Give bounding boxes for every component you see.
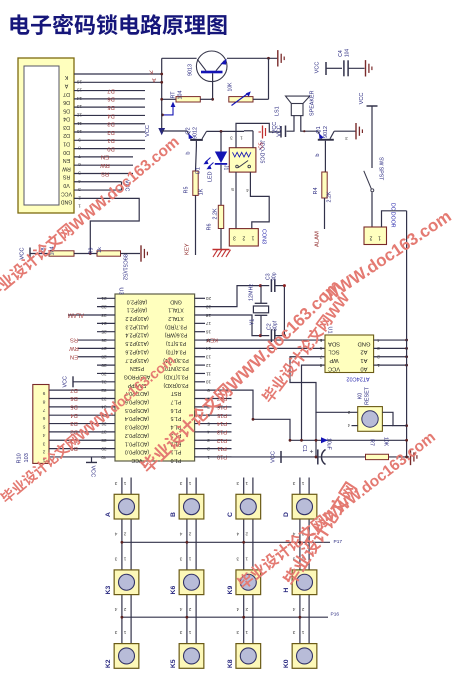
wire Q2 collector — [207, 130, 245, 132]
svg-text:R6: R6 — [207, 224, 213, 231]
svg-text:P1.6: P1.6 — [171, 407, 182, 413]
keypad row rail P17 — [122, 541, 330, 543]
capacitor C2 — [260, 335, 269, 337]
svg-text:(AD0)P0.0: (AD0)P0.0 — [125, 449, 149, 455]
svg-text:(A15)P2.7: (A15)P2.7 — [125, 357, 148, 363]
RT wiper arrow — [162, 107, 173, 115]
wire LCD pin16 K — [74, 73, 162, 75]
wire LCD pin15 A — [74, 81, 162, 83]
speaker LS1 — [286, 96, 310, 103]
keypad column wires — [121, 478, 123, 495]
junction — [267, 57, 270, 60]
svg-text:3: 3 — [292, 629, 295, 635]
ground (Q1) — [355, 123, 357, 139]
connector CON3 — [229, 229, 258, 246]
svg-text:5: 5 — [231, 186, 234, 192]
svg-text:A: A — [152, 77, 156, 83]
svg-text:3: 3 — [114, 629, 117, 635]
wire pot to ground rail — [253, 98, 269, 100]
svg-text:1: 1 — [245, 629, 248, 635]
svg-text:4: 4 — [236, 531, 239, 537]
svg-text:R4: R4 — [313, 188, 319, 195]
U3 left pin stubs — [97, 297, 115, 299]
svg-text:1: 1 — [251, 235, 254, 241]
svg-text:GND: GND — [170, 298, 182, 304]
svg-text:(A11)P2.3: (A11)P2.3 — [125, 323, 148, 329]
wire LCD data D2 — [74, 131, 145, 133]
svg-text:K5: K5 — [170, 659, 177, 668]
svg-text:(A12)P2.4: (A12)P2.4 — [125, 332, 148, 338]
wire RS net — [78, 339, 115, 341]
svg-text:15: 15 — [77, 87, 83, 93]
wire switch to DOOR connector — [371, 192, 373, 227]
pushbutton A — [114, 494, 139, 519]
svg-text:1: 1 — [245, 555, 248, 561]
junction — [161, 114, 164, 117]
svg-text:16: 16 — [77, 78, 83, 84]
svg-text:D7: D7 — [70, 387, 77, 393]
wire EN net — [78, 356, 115, 358]
svg-text:3: 3 — [42, 440, 45, 446]
svg-text:1: 1 — [301, 629, 304, 635]
svg-text:D6: D6 — [107, 96, 114, 102]
svg-text:(A14)P2.6: (A14)P2.6 — [125, 348, 148, 354]
svg-text:20: 20 — [206, 295, 212, 301]
svg-text:D3: D3 — [107, 121, 114, 127]
wire R4 to ALAM — [324, 198, 326, 229]
svg-text:K0: K0 — [283, 659, 290, 668]
junction K0 left leg — [315, 412, 317, 457]
svg-text:103: 103 — [24, 453, 30, 462]
svg-text:VCC: VCC — [328, 365, 340, 371]
ground (reset) — [410, 449, 412, 465]
wire U1 VCC pin — [302, 365, 326, 440]
svg-text:VCC: VCC — [20, 247, 26, 259]
svg-text:P3.0(RXD): P3.0(RXD) — [163, 382, 188, 388]
svg-text:RW: RW — [100, 162, 110, 168]
svg-text:3: 3 — [233, 235, 236, 241]
svg-text:D2: D2 — [63, 132, 70, 138]
transistor Q2 9012 — [162, 130, 187, 132]
svg-text:2: 2 — [42, 449, 45, 455]
wire LCD GND row — [74, 198, 139, 253]
power VCC (relay) — [280, 126, 282, 138]
svg-text:9: 9 — [78, 136, 81, 142]
svg-text:VCC: VCC — [271, 451, 277, 463]
svg-text:4: 4 — [292, 606, 295, 612]
svg-text:D4: D4 — [63, 116, 70, 122]
EEPROM U1 AT24C02 body — [325, 335, 374, 373]
LCD connector module — [18, 58, 74, 213]
svg-text:AT24C02: AT24C02 — [346, 376, 369, 382]
svg-text:1: 1 — [188, 555, 191, 561]
svg-text:3: 3 — [236, 555, 239, 561]
wire LCD data D6 — [74, 98, 145, 100]
junction crystal bottom — [259, 334, 262, 337]
svg-text:WP: WP — [329, 357, 338, 363]
wire RW net — [78, 347, 115, 349]
wire VCC to R8 — [30, 253, 49, 255]
pushbutton H — [292, 570, 317, 595]
wire LCD data D5 — [74, 106, 145, 108]
svg-text:RS: RS — [70, 337, 78, 343]
svg-text:3: 3 — [236, 480, 239, 486]
wire LCD ctrl RW — [74, 164, 133, 166]
svg-text:U3: U3 — [118, 287, 124, 294]
svg-text:D5: D5 — [107, 104, 114, 110]
svg-text:VCC: VCC — [315, 62, 321, 74]
svg-text:KEY: KEY — [206, 337, 218, 343]
svg-text:1: 1 — [123, 555, 126, 561]
junction — [89, 252, 92, 255]
svg-text:10K: 10K — [228, 82, 234, 92]
svg-text:10: 10 — [77, 128, 83, 134]
svg-text:11: 11 — [206, 370, 211, 376]
watermark 1 — [0, 133, 183, 304]
wire P3.4 to U1 SCL — [195, 347, 325, 349]
svg-text:XTAL2: XTAL2 — [168, 315, 184, 321]
svg-text:(AD2)P0.2: (AD2)P0.2 — [125, 432, 149, 438]
svg-text:K: K — [149, 69, 153, 75]
svg-text:P3.1(TXD): P3.1(TXD) — [163, 373, 188, 379]
svg-text:Q2: Q2 — [186, 127, 192, 134]
svg-text:+: + — [310, 448, 314, 455]
svg-text:13: 13 — [77, 103, 83, 109]
power VCC (C4) — [325, 62, 327, 75]
svg-text:VCC: VCC — [61, 190, 72, 196]
svg-text:A: A — [105, 512, 112, 517]
pushbutton K6 — [179, 570, 204, 595]
wire EA/VPP to VCC — [73, 381, 115, 383]
svg-text:R7: R7 — [369, 439, 375, 446]
svg-text:(A9)P2.1: (A9)P2.1 — [127, 307, 148, 313]
svg-text:SPEAKER: SPEAKER — [310, 90, 316, 116]
K0 right pins — [382, 412, 406, 425]
wire LCD VCC row — [74, 189, 122, 191]
svg-text:SCL: SCL — [328, 349, 340, 355]
capacitor C3 — [260, 285, 269, 287]
svg-text:D6: D6 — [63, 99, 70, 105]
U1 right pins to rail — [374, 339, 407, 341]
svg-text:b: b — [315, 153, 321, 156]
svg-text:R10: R10 — [17, 453, 23, 463]
wire 9013 collector to ground — [227, 57, 277, 59]
wire right rail — [406, 211, 408, 457]
svg-text:EN: EN — [70, 353, 78, 359]
svg-text:3: 3 — [179, 555, 182, 561]
svg-text:2: 2 — [245, 606, 248, 612]
svg-text:K3: K3 — [105, 586, 112, 595]
arrow on RST wire — [321, 437, 328, 443]
svg-text:9013: 9013 — [188, 64, 194, 76]
svg-text:RS: RS — [62, 174, 70, 180]
relay JDQ-DC5 — [229, 148, 256, 172]
svg-text:4: 4 — [114, 606, 117, 612]
svg-text:16: 16 — [206, 329, 212, 335]
svg-text:SW SPST: SW SPST — [378, 157, 384, 181]
svg-text:2: 2 — [369, 235, 372, 241]
ground (R9) — [140, 245, 142, 261]
pushbutton C — [236, 494, 261, 519]
watermark 6 — [281, 480, 358, 587]
svg-text:ALAM: ALAM — [68, 312, 84, 318]
svg-text:10K: 10K — [383, 437, 389, 447]
svg-text:104: 104 — [178, 91, 184, 100]
svg-text:GND: GND — [60, 199, 72, 205]
svg-text:DC DOOR: DC DOOR — [390, 203, 396, 228]
svg-text:P1.5: P1.5 — [171, 415, 182, 421]
svg-text:1: 1 — [188, 480, 191, 486]
svg-text:8: 8 — [42, 399, 45, 405]
wire Q1 collector to ground — [334, 130, 355, 132]
pushbutton K8 — [236, 644, 261, 669]
svg-text:(AD4)P0.4: (AD4)P0.4 — [125, 415, 149, 421]
svg-text:C5: C5 — [259, 142, 265, 149]
svg-text:P3.5(T1): P3.5(T1) — [166, 340, 186, 346]
speaker left leg to VCC — [287, 116, 295, 132]
svg-text:A1: A1 — [360, 357, 367, 363]
pushbutton D — [292, 494, 317, 519]
svg-text:R9: R9 — [89, 248, 95, 255]
svg-text:VCC: VCC — [90, 465, 96, 477]
title text — [10, 14, 226, 35]
svg-text:ALAM: ALAM — [315, 231, 321, 247]
earth ground (R6) hatched — [213, 249, 230, 251]
svg-text:1: 1 — [123, 480, 126, 486]
svg-text:K9: K9 — [227, 586, 234, 595]
svg-text:30p: 30p — [272, 272, 278, 281]
svg-text:D7: D7 — [107, 87, 114, 93]
resistor network R10 103 — [33, 385, 49, 464]
svg-text:3: 3 — [114, 480, 117, 486]
svg-text:RW: RW — [62, 165, 71, 171]
svg-text:7: 7 — [319, 354, 322, 360]
connector DOOR — [364, 227, 387, 245]
svg-text:4: 4 — [114, 531, 117, 537]
svg-text:3: 3 — [236, 629, 239, 635]
svg-text:4: 4 — [179, 606, 182, 612]
svg-text:D1: D1 — [107, 137, 114, 143]
svg-text:D3: D3 — [70, 420, 77, 426]
svg-text:4: 4 — [179, 531, 182, 537]
wire RST circuit — [195, 390, 407, 440]
svg-text:1: 1 — [188, 629, 191, 635]
MCU U3 89C51/52 body — [115, 294, 195, 461]
wire P3.5 to U1 SDA — [195, 339, 325, 341]
svg-text:D1: D1 — [63, 141, 70, 147]
wire LCD data D3 — [74, 123, 145, 125]
svg-text:(AD3)P0.3: (AD3)P0.3 — [125, 424, 149, 430]
pushbutton K0 — [292, 644, 317, 669]
svg-text:D7: D7 — [63, 91, 70, 97]
relay top pins — [236, 123, 281, 147]
junction crystal top — [259, 284, 262, 287]
svg-text:9012: 9012 — [193, 127, 199, 139]
svg-text:A0: A0 — [360, 365, 367, 371]
wire Q2 emitter to R5 — [195, 141, 197, 146]
svg-text:(A13)P2.5: (A13)P2.5 — [125, 340, 148, 346]
svg-text:9: 9 — [42, 390, 45, 396]
svg-text:6: 6 — [319, 345, 322, 351]
R10 to U3 P0 bus wires — [49, 389, 115, 391]
svg-text:P3.7(RD): P3.7(RD) — [165, 323, 187, 329]
svg-text:14: 14 — [77, 95, 83, 101]
svg-text:K: K — [64, 74, 68, 80]
junction LED branch — [220, 130, 223, 133]
svg-text:RT: RT — [171, 91, 177, 99]
svg-text:5: 5 — [78, 169, 81, 175]
U3 right pin stubs — [195, 297, 205, 299]
svg-text:2: 2 — [242, 235, 245, 241]
svg-text:EN: EN — [63, 157, 70, 163]
svg-text:VCC: VCC — [277, 125, 283, 136]
svg-text:2: 2 — [123, 606, 126, 612]
wire LED to R6 — [220, 165, 222, 206]
svg-text:P14: P14 — [217, 420, 227, 426]
svg-text:C: C — [227, 512, 234, 517]
svg-text:3: 3 — [179, 629, 182, 635]
svg-text:P3.6(WR): P3.6(WR) — [164, 332, 187, 338]
svg-text:6: 6 — [78, 161, 81, 167]
svg-text:P17: P17 — [334, 539, 343, 545]
svg-text:P15: P15 — [217, 412, 227, 418]
svg-text:b: b — [186, 151, 192, 154]
svg-text:K8: K8 — [227, 659, 234, 668]
svg-text:P1.7: P1.7 — [171, 399, 182, 405]
svg-text:K6: K6 — [170, 586, 177, 595]
svg-text:CON3: CON3 — [261, 229, 267, 244]
svg-text:V0: V0 — [63, 182, 69, 188]
svg-text:1: 1 — [78, 203, 81, 209]
wire left rail (VCC) — [161, 58, 163, 131]
svg-text:D2: D2 — [107, 129, 114, 135]
svg-text:C1: C1 — [301, 445, 307, 452]
U3 P1 pin wires — [195, 398, 232, 400]
wire crystal caps common — [283, 286, 285, 336]
svg-text:1: 1 — [240, 136, 243, 141]
wire 9013 base down — [212, 73, 214, 99]
svg-text:1k: 1k — [97, 247, 103, 253]
power VCC arrow — [158, 128, 165, 135]
svg-text:D4: D4 — [70, 412, 78, 418]
resistor R4 2.2K — [322, 172, 327, 198]
svg-text:D5: D5 — [70, 403, 77, 409]
ground (C4) — [365, 60, 367, 76]
wire ALAM net (P2.2) — [68, 314, 115, 316]
svg-text:RS: RS — [101, 170, 109, 176]
svg-text:LS1: LS1 — [275, 106, 281, 116]
capacitor C4 104 — [326, 67, 342, 69]
svg-text:3: 3 — [78, 186, 81, 192]
svg-text:2: 2 — [188, 531, 191, 537]
svg-text:D6: D6 — [70, 395, 77, 401]
svg-text:D0: D0 — [63, 149, 70, 155]
svg-text:1: 1 — [245, 480, 248, 486]
resistor R8 — [49, 251, 74, 256]
svg-text:4: 4 — [246, 187, 249, 193]
svg-text:4: 4 — [42, 432, 45, 438]
svg-text:A2: A2 — [360, 349, 367, 355]
svg-text:A: A — [64, 82, 68, 88]
svg-text:Q1: Q1 — [316, 126, 322, 133]
svg-text:3: 3 — [179, 480, 182, 486]
svg-text:B: B — [170, 512, 177, 517]
watermark 5 — [235, 428, 439, 592]
svg-text:K2: K2 — [105, 659, 112, 668]
svg-text:D0: D0 — [107, 145, 114, 151]
svg-text:EN: EN — [101, 154, 109, 160]
resistor R6 2.2K — [218, 205, 223, 228]
pushbutton K3 — [114, 570, 139, 595]
svg-text:D: D — [283, 512, 290, 517]
svg-text:7: 7 — [78, 153, 81, 159]
power VCC (U3 VCC pin row) — [91, 457, 93, 463]
keypad row rail P16 — [122, 616, 328, 618]
potentiometer RW1 — [229, 97, 253, 102]
svg-text:R5: R5 — [184, 187, 190, 194]
svg-text:13: 13 — [206, 354, 212, 360]
svg-text:10uF: 10uF — [326, 438, 332, 450]
svg-text:D5: D5 — [63, 107, 70, 113]
svg-text:H: H — [283, 588, 290, 593]
svg-text:XTAL1: XTAL1 — [168, 307, 184, 313]
svg-text:VCC: VCC — [359, 93, 365, 105]
ground (top) — [277, 50, 279, 66]
svg-text:P16: P16 — [331, 612, 340, 618]
svg-text:5: 5 — [319, 337, 322, 343]
transistor Q1 9012 — [318, 139, 334, 141]
wire R6 to ground — [220, 229, 222, 250]
svg-text:104: 104 — [345, 49, 351, 58]
svg-text:4: 4 — [78, 178, 81, 184]
svg-text:11: 11 — [77, 120, 82, 126]
wire LCD data D7 — [74, 90, 145, 92]
svg-text:P1.0: P1.0 — [171, 457, 182, 463]
power VCC (R8) — [29, 248, 31, 260]
svg-text:(AD1)P0.1: (AD1)P0.1 — [125, 440, 149, 446]
watermark 3 — [0, 352, 178, 506]
speaker right leg to Q1 — [301, 116, 318, 132]
svg-text:(AD5)P0.5: (AD5)P0.5 — [125, 407, 149, 413]
svg-text:D3: D3 — [63, 124, 70, 130]
svg-text:8: 8 — [78, 145, 81, 151]
wire VCC to switch — [371, 112, 373, 168]
pushbutton K2 — [114, 644, 139, 669]
svg-text:12: 12 — [77, 111, 83, 117]
thermistor RT 104 — [162, 98, 176, 100]
svg-text:D1: D1 — [196, 167, 202, 174]
power VCC (door) — [367, 105, 378, 107]
svg-text:89C51/(52: 89C51/(52 — [122, 254, 128, 280]
svg-text:1: 1 — [123, 629, 126, 635]
svg-text:1: 1 — [378, 235, 381, 241]
resistor R5 1K — [193, 171, 198, 195]
svg-text:(A8)P2.0: (A8)P2.0 — [127, 298, 148, 304]
svg-text:KEY: KEY — [185, 243, 191, 255]
svg-text:10: 10 — [206, 379, 212, 385]
junction rail-bottom — [405, 456, 408, 459]
svg-text:3: 3 — [292, 480, 295, 486]
wire XTAL1 to crystal — [195, 286, 261, 307]
wire R9 to ground — [121, 253, 141, 255]
pushbutton K0 RESET — [358, 407, 383, 432]
watermark 4 — [320, 207, 455, 307]
resistor R7 10K — [366, 454, 389, 459]
svg-text:P12: P12 — [217, 437, 227, 443]
watermark 7 — [260, 289, 354, 406]
svg-text:6: 6 — [42, 415, 45, 421]
svg-text:8: 8 — [319, 362, 322, 368]
